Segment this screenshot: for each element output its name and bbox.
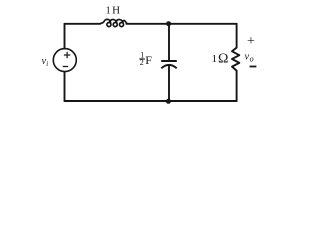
svg-text:1: 1	[212, 53, 218, 65]
node junction top (capacitor to top wire)	[166, 21, 171, 26]
wire bottom segment	[65, 100, 237, 102]
svg-text:F: F	[145, 53, 152, 67]
wire top-right segment	[126, 23, 236, 25]
wire left segment above source	[64, 24, 66, 49]
wire capacitor branch lower	[168, 65, 170, 101]
node junction bottom (capacitor to bottom wire)	[166, 99, 171, 104]
svg-text:Ω: Ω	[218, 51, 228, 66]
value label 1/2 F for capacitor C1	[139, 51, 152, 68]
wire right segment below resistor	[236, 71, 238, 101]
wire capacitor branch upper	[168, 24, 170, 61]
svg-text:2: 2	[140, 58, 144, 67]
svg-text:vo: vo	[245, 52, 254, 64]
wire right segment above resistor	[236, 24, 238, 48]
svg-text:vi: vi	[42, 56, 49, 68]
svg-text:+: +	[247, 34, 255, 49]
svg-text:H: H	[112, 5, 120, 17]
inductor L1 (1 H)	[100, 19, 127, 26]
capacitor C1 (1/2 F)	[161, 61, 177, 68]
polarity - for output v_o	[250, 66, 257, 68]
wire left segment below source	[64, 72, 66, 101]
voltage source V1 (v_i)	[53, 49, 76, 72]
resistor R1 (1 ohm)	[232, 48, 239, 71]
wire top-left segment	[65, 23, 101, 25]
svg-text:1: 1	[106, 6, 111, 17]
